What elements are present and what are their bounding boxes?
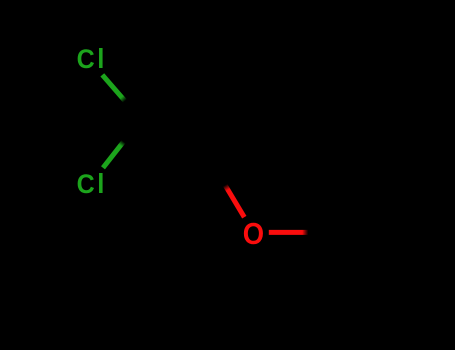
- svg-text:O: O: [243, 217, 264, 251]
- svg-text:l: l: [97, 168, 104, 199]
- bond C2-O (diagonal C-O bond, red fading to black toward carbon): [225, 185, 244, 217]
- svg-text:C: C: [77, 168, 95, 199]
- bond O-C3 (horizontal O-C bond, red fading to black toward carbon): [269, 230, 308, 235]
- svg-text:C: C: [77, 43, 95, 74]
- svg-text:l: l: [97, 43, 104, 74]
- atom label Cl1 (top chlorine): [77, 43, 105, 74]
- bond Cl2-C1 (lower C-Cl bond, green fading to black toward carbon): [103, 142, 124, 168]
- atom label Cl2 (bottom chlorine): [77, 168, 105, 199]
- bond Cl1-C1 (upper C-Cl bond, green fading to black toward carbon): [102, 75, 125, 101]
